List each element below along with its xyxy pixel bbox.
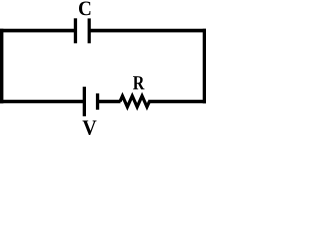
wire right vertical segment bbox=[203, 29, 206, 104]
resistor label R bbox=[133, 76, 145, 89]
battery label V bbox=[83, 121, 97, 136]
wire bottom-left segment bbox=[0, 100, 84, 104]
wire battery-to-resistor segment bbox=[98, 100, 121, 104]
wire left vertical segment bbox=[0, 29, 3, 104]
battery V1 short plate bbox=[96, 93, 99, 109]
wire top-right segment bbox=[90, 29, 206, 33]
capacitor C1 right plate bbox=[88, 18, 91, 43]
capacitor C1 left plate bbox=[74, 18, 77, 43]
wire resistor-to-right segment bbox=[148, 100, 206, 104]
capacitor label C bbox=[79, 2, 90, 16]
battery V1 long plate bbox=[83, 87, 86, 117]
wire top-left segment bbox=[0, 29, 75, 33]
resistor R1 zigzag bbox=[120, 96, 149, 107]
